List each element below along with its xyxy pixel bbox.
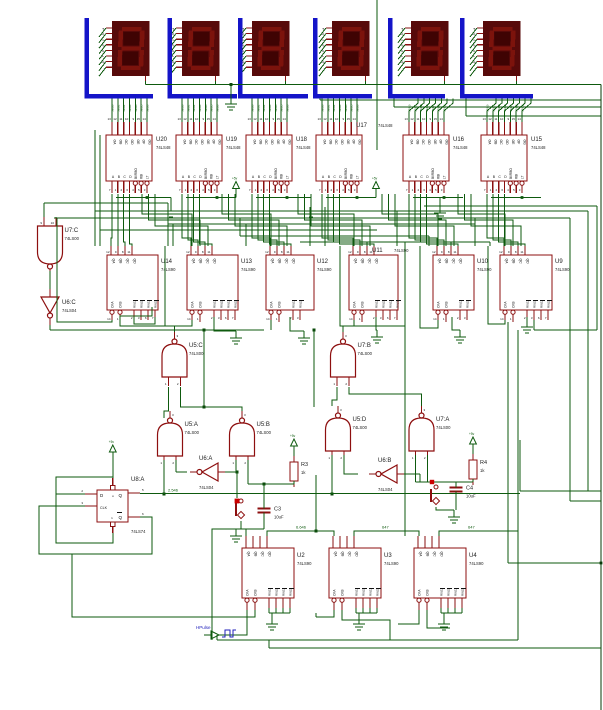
svg-text:c: c <box>400 38 404 41</box>
svg-text:f: f <box>472 55 476 57</box>
svg-text:R0(2): R0(2) <box>220 300 224 308</box>
svg-text:B: B <box>118 175 121 179</box>
svg-text:OB: OB <box>493 140 497 146</box>
wire rail below U17 <box>326 177 379 199</box>
svg-text:SEG6: SEG6 <box>215 104 219 112</box>
svg-text:74LS00: 74LS00 <box>65 236 80 241</box>
svg-text:12: 12 <box>183 117 187 121</box>
vcc arrow U8:A preset <box>109 440 116 478</box>
svg-text:OG: OG <box>444 140 448 146</box>
svg-text:4: 4 <box>111 495 115 497</box>
svg-text:BI/RBO: BI/RBO <box>344 168 348 179</box>
svg-text:U5:A: U5:A <box>185 422 198 428</box>
wire U3 CKB run <box>342 610 390 640</box>
svg-text:1k: 1k <box>301 470 306 475</box>
wire U13 R to gnd <box>214 317 236 331</box>
svg-text:OA: OA <box>323 140 327 146</box>
svg-text:D: D <box>100 493 104 498</box>
svg-text:SEG0: SEG0 <box>321 104 325 112</box>
svg-text:1: 1 <box>325 188 327 192</box>
svg-text:QB: QB <box>278 259 282 265</box>
svg-text:1: 1 <box>443 317 445 321</box>
svg-text:SEG5: SEG5 <box>437 104 441 112</box>
svg-text:QA: QA <box>505 259 509 265</box>
wire top bus 1 <box>320 99 601 101</box>
svg-text:10: 10 <box>125 117 129 121</box>
wire R3 bottom run <box>248 481 294 486</box>
svg-text:c: c <box>472 38 476 41</box>
svg-text:SEG6: SEG6 <box>442 104 446 112</box>
wire carry staircase col3-col4 <box>298 194 370 246</box>
capacitor C3 <box>258 507 284 520</box>
svg-text:74LS90: 74LS90 <box>469 561 484 566</box>
svg-text:SEG2: SEG2 <box>497 104 501 112</box>
wire U4 CKA down <box>398 610 419 624</box>
svg-text:SEG3: SEG3 <box>338 104 342 112</box>
svg-text:R0(1): R0(1) <box>459 300 463 308</box>
svg-text:R0(1): R0(1) <box>292 300 296 308</box>
svg-text:12: 12 <box>432 250 436 254</box>
svg-text:4: 4 <box>342 188 344 192</box>
svg-text:QC: QC <box>433 552 437 558</box>
wire U5:B in2 down <box>247 460 249 484</box>
svg-text:6: 6 <box>387 316 389 320</box>
svg-text:U11: U11 <box>372 248 383 254</box>
svg-text:CKB: CKB <box>199 301 203 308</box>
svg-text:R9(2): R9(2) <box>376 588 380 596</box>
svg-text:D: D <box>339 175 342 179</box>
svg-text:OC: OC <box>499 140 503 146</box>
svg-text:LT: LT <box>442 175 446 179</box>
svg-text:1: 1 <box>197 317 199 321</box>
svg-text:R0(2): R0(2) <box>140 300 144 308</box>
svg-text:QC: QC <box>261 552 265 558</box>
wire U7:C in1 <box>43 203 45 217</box>
svg-text:d: d <box>472 44 476 47</box>
svg-text:B: B <box>188 175 191 179</box>
svg-text:10uF: 10uF <box>274 515 284 520</box>
svg-text:U4: U4 <box>469 553 477 559</box>
decade counter U9 74LS90 <box>499 246 570 322</box>
svg-text:OB: OB <box>188 140 192 146</box>
svg-text:R9(1): R9(1) <box>540 300 544 308</box>
svg-text:1: 1 <box>115 188 117 192</box>
svg-text:U19: U19 <box>226 137 238 143</box>
svg-text:e: e <box>101 49 105 52</box>
BCD-7seg driver U17 74LS48 <box>316 99 393 194</box>
svg-text:10uF: 10uF <box>466 494 476 499</box>
svg-text:11: 11 <box>416 117 419 121</box>
svg-text:QB: QB <box>254 552 258 558</box>
svg-text:OG: OG <box>357 140 361 146</box>
wire U7:A in2 hour-set junction <box>416 455 474 484</box>
wire U6:C out run <box>50 325 264 330</box>
BCD-7seg driver U15 74LS48 <box>481 99 546 194</box>
decade counter U2 74LS90 <box>242 536 312 610</box>
svg-text:3: 3 <box>218 316 220 320</box>
svg-text:CKB: CKB <box>254 589 258 596</box>
wire rail below U19 <box>186 177 239 199</box>
7-segment display DS2 <box>167 18 237 96</box>
svg-text:d: d <box>321 44 325 47</box>
svg-text:U6:C: U6:C <box>62 300 76 306</box>
svg-text:+5v: +5v <box>372 177 378 181</box>
svg-text:QA: QA <box>419 552 423 558</box>
wire rail below U15 <box>491 196 541 199</box>
svg-text:74LS90: 74LS90 <box>241 267 256 272</box>
BCD-7seg driver U18 74LS48 <box>246 99 311 194</box>
7-segment display DS4 <box>313 18 372 96</box>
svg-text:3: 3 <box>354 188 356 192</box>
svg-text:OE: OE <box>511 140 515 146</box>
svg-text:5: 5 <box>348 188 350 192</box>
wire rail below U20 <box>116 196 177 217</box>
svg-text:SEG6: SEG6 <box>285 104 289 112</box>
svg-text:3: 3 <box>340 408 342 412</box>
wire R4 bottom <box>472 479 474 482</box>
svg-text:QB: QB <box>119 259 123 265</box>
svg-text:11: 11 <box>494 117 497 121</box>
svg-text:7: 7 <box>319 188 321 192</box>
switch hours set <box>431 485 440 505</box>
svg-text:SEG3: SEG3 <box>268 104 272 112</box>
svg-text:U6:A: U6:A <box>199 456 212 462</box>
svg-text:.: . <box>472 67 476 69</box>
wire carry staircase col4-col5 <box>382 194 454 246</box>
wire U5:B in1 junction to switch <box>236 460 237 498</box>
svg-text:13: 13 <box>247 117 251 121</box>
wire run F <box>100 229 377 231</box>
svg-text:SEG1: SEG1 <box>186 104 190 112</box>
svg-text:74LS00: 74LS00 <box>185 430 200 435</box>
decade counter U10 74LS90 <box>432 246 492 322</box>
svg-text:U7:A: U7:A <box>436 417 449 423</box>
wire BCD bus U18 to U12 <box>252 194 291 246</box>
svg-text:74LS48: 74LS48 <box>296 145 311 150</box>
wire reset vertical x204 <box>203 329 206 409</box>
svg-text:QB: QB <box>199 259 203 265</box>
svg-text:SEG6: SEG6 <box>355 104 359 112</box>
svg-text:RBI: RBI <box>515 174 519 179</box>
svg-text:CKB: CKB <box>278 301 282 308</box>
vcc arrow R3 <box>290 434 297 456</box>
svg-text:1: 1 <box>160 461 162 465</box>
svg-text:SEG4: SEG4 <box>134 104 138 112</box>
svg-text:9: 9 <box>429 117 431 121</box>
wire bundle col5 <box>397 211 429 246</box>
svg-text:QA: QA <box>438 259 442 265</box>
svg-text:2: 2 <box>260 188 262 192</box>
svg-text:SEG1: SEG1 <box>491 104 495 112</box>
svg-text:U10: U10 <box>477 259 489 265</box>
svg-text:3: 3 <box>284 188 286 192</box>
svg-text:9: 9 <box>508 250 510 254</box>
svg-text:8: 8 <box>448 250 450 254</box>
svg-text:CKA: CKA <box>333 589 337 596</box>
svg-text:11: 11 <box>127 250 130 254</box>
ground below U13 <box>230 331 242 344</box>
svg-text:f: f <box>101 55 105 57</box>
svg-text:R0(2): R0(2) <box>299 300 303 308</box>
svg-text:D: D <box>129 175 132 179</box>
svg-text:c: c <box>321 38 325 41</box>
svg-text:10: 10 <box>500 117 504 121</box>
wire C3 leads <box>263 484 265 529</box>
svg-text:C: C <box>333 175 336 179</box>
svg-text:QD: QD <box>355 552 359 558</box>
ground below U9 <box>521 320 533 333</box>
wire U13 CKA feed <box>165 246 192 326</box>
svg-text:3: 3 <box>519 188 521 192</box>
svg-text:3: 3 <box>214 188 216 192</box>
svg-text:8: 8 <box>122 250 124 254</box>
svg-text:6: 6 <box>336 188 338 192</box>
svg-text:f: f <box>400 55 404 57</box>
wire U7:C out to U6:C <box>49 271 51 289</box>
svg-text:RBI: RBI <box>210 174 214 179</box>
svg-text:Q: Q <box>118 493 122 498</box>
svg-text:OA: OA <box>113 140 117 146</box>
svg-text:11: 11 <box>286 250 289 254</box>
svg-text:SEG5: SEG5 <box>140 104 144 112</box>
svg-text:SEG1: SEG1 <box>413 104 417 112</box>
svg-text:+5v: +5v <box>469 432 475 436</box>
wire bundle left of U18 col <box>240 218 246 246</box>
wire U2 QD to U3 CKA <box>267 525 334 537</box>
svg-text:OB: OB <box>118 140 122 146</box>
svg-text:SEG2: SEG2 <box>419 104 423 112</box>
svg-text:CKB: CKB <box>445 301 449 308</box>
svg-text:b: b <box>321 33 325 36</box>
wire U5:D out to U7:B in1 <box>332 387 337 406</box>
wire U10 R to gnd <box>452 317 460 330</box>
svg-text:2: 2 <box>417 188 419 192</box>
svg-text:D: D <box>199 175 202 179</box>
svg-text:QB: QB <box>341 552 345 558</box>
svg-text:+5v: +5v <box>290 434 296 438</box>
svg-text:OA: OA <box>410 140 414 146</box>
svg-text:14: 14 <box>282 117 286 121</box>
svg-text:QC: QC <box>368 259 372 265</box>
svg-text:74LS48: 74LS48 <box>453 145 468 150</box>
svg-text:4: 4 <box>272 188 274 192</box>
svg-text:A: A <box>409 175 412 179</box>
wire U7:C in2 <box>55 217 57 218</box>
svg-text:A: A <box>112 175 115 179</box>
inverter U6:B <box>369 458 404 492</box>
svg-text:CKA: CKA <box>418 589 422 596</box>
svg-text:R9(1): R9(1) <box>147 300 151 308</box>
svg-text:74LS04: 74LS04 <box>378 487 393 492</box>
svg-text:3: 3 <box>144 188 146 192</box>
svg-text:BI/RBO: BI/RBO <box>431 168 435 179</box>
wire U5:B out to U5:C in2 <box>181 387 243 411</box>
svg-text:OC: OC <box>264 140 268 146</box>
svg-text:OD: OD <box>130 140 134 146</box>
svg-text:74LS74: 74LS74 <box>131 529 146 534</box>
wire U8:A Qbar feedback loop <box>39 506 152 554</box>
wire right vertical 2 <box>600 85 602 710</box>
wire U5:A out to U5:C in1 <box>164 387 169 418</box>
svg-text:LT: LT <box>285 175 289 179</box>
svg-text:g: g <box>101 61 105 64</box>
svg-text:2: 2 <box>457 316 459 320</box>
svg-text:C: C <box>193 175 196 179</box>
svg-text:12: 12 <box>410 117 414 121</box>
svg-text:R0(1): R0(1) <box>375 300 379 308</box>
svg-text:14: 14 <box>500 317 504 321</box>
svg-text:3: 3 <box>424 408 426 412</box>
wire U7:B out run + long vertical <box>343 242 405 518</box>
svg-text:1: 1 <box>185 188 187 192</box>
svg-text:D: D <box>504 175 507 179</box>
svg-text:OC: OC <box>124 140 128 146</box>
vcc arrow R4 <box>469 432 476 454</box>
svg-text:3: 3 <box>464 316 466 320</box>
svg-text:8: 8 <box>202 250 204 254</box>
wire U5:D in1 to Q bus <box>331 455 334 496</box>
svg-text:Q: Q <box>118 515 122 520</box>
svg-text:b: b <box>101 33 105 36</box>
svg-text:U2: U2 <box>297 553 305 559</box>
svg-text:74LS04: 74LS04 <box>199 485 214 490</box>
svg-text:1: 1 <box>490 188 492 192</box>
svg-text:OB: OB <box>258 140 262 146</box>
svg-text:R9(1): R9(1) <box>389 300 393 308</box>
svg-text:7: 7 <box>152 316 154 320</box>
svg-text:6: 6 <box>225 316 227 320</box>
svg-text:SEG0: SEG0 <box>408 104 412 112</box>
svg-text:74LS48: 74LS48 <box>156 145 171 150</box>
svg-text:8: 8 <box>364 250 366 254</box>
svg-text:QC: QC <box>519 259 523 265</box>
wire bundle left of U14 <box>168 203 173 246</box>
svg-text:9: 9 <box>272 117 274 121</box>
svg-text:6: 6 <box>145 316 147 320</box>
wire switch min to ground <box>230 521 264 542</box>
svg-text:U7:B: U7:B <box>358 343 371 349</box>
svg-text:4: 4 <box>202 188 204 192</box>
wire carry staircase col5-col6 <box>458 194 521 246</box>
svg-text:1: 1 <box>510 317 512 321</box>
svg-text:2: 2 <box>340 456 342 460</box>
wire U11 R to gnd <box>376 317 377 330</box>
svg-text:15: 15 <box>512 117 516 121</box>
svg-text:CKA: CKA <box>504 301 508 308</box>
svg-text:C: C <box>263 175 266 179</box>
svg-text:BI/RBO: BI/RBO <box>134 168 138 179</box>
wire BCD bus U16 to U10 <box>409 194 458 246</box>
svg-text:OD: OD <box>200 140 204 146</box>
wire run A <box>44 202 168 204</box>
wire BCD bus U17 to U11 <box>322 194 374 246</box>
svg-text:SEG3: SEG3 <box>503 104 507 112</box>
svg-text:LT: LT <box>215 175 219 179</box>
svg-text:13: 13 <box>317 117 321 121</box>
svg-text:R4: R4 <box>480 460 487 466</box>
svg-text:74LS90: 74LS90 <box>297 561 312 566</box>
wire U3 CKA down <box>316 610 334 617</box>
svg-text:QC: QC <box>285 259 289 265</box>
svg-text:6: 6 <box>538 316 540 320</box>
svg-text:SEG5: SEG5 <box>350 104 354 112</box>
NAND gate U5:D <box>326 406 368 460</box>
svg-text:6: 6 <box>142 512 144 516</box>
svg-text:3: 3 <box>244 413 246 417</box>
svg-text:SEG0: SEG0 <box>111 104 115 112</box>
wire run D <box>95 210 588 212</box>
svg-text:.: . <box>101 67 105 69</box>
svg-text:QC: QC <box>452 259 456 265</box>
svg-text:A: A <box>252 175 255 179</box>
svg-text:10: 10 <box>422 117 426 121</box>
svg-text:RBI: RBI <box>437 174 441 179</box>
svg-text:RBI: RBI <box>140 174 144 179</box>
svg-text:SEG0: SEG0 <box>486 104 490 112</box>
svg-text:R0(1): R0(1) <box>526 300 530 308</box>
svg-text:10: 10 <box>265 117 269 121</box>
wire U5:A in1 to Q bus <box>163 460 166 496</box>
wire U11 CKA feed <box>340 246 354 326</box>
svg-text:U6:B: U6:B <box>378 458 391 464</box>
svg-text:OG: OG <box>522 140 526 146</box>
svg-text:CKA: CKA <box>246 589 250 596</box>
svg-text:HPulse: HPulse <box>196 625 211 630</box>
svg-text:QD: QD <box>133 259 137 265</box>
svg-text:2: 2 <box>131 316 133 320</box>
svg-text:9: 9 <box>357 250 359 254</box>
svg-text:R0(2): R0(2) <box>447 588 451 596</box>
resistor R3 <box>290 456 308 487</box>
svg-text:SEG6: SEG6 <box>520 104 524 112</box>
svg-text:RBI: RBI <box>350 174 354 179</box>
svg-text:C: C <box>420 175 423 179</box>
svg-text:A: A <box>182 175 185 179</box>
svg-text:B: B <box>415 175 418 179</box>
wire switch hr to ground <box>436 507 460 523</box>
svg-text:15: 15 <box>277 117 281 121</box>
7-segment display DS5 <box>388 18 449 96</box>
svg-text:D: D <box>426 175 429 179</box>
svg-text:U13: U13 <box>241 259 253 265</box>
wire U9 CKA feed <box>488 246 505 324</box>
resistor R4 <box>469 454 487 485</box>
wire U2 QA loop <box>212 529 246 640</box>
svg-text:R9(2): R9(2) <box>396 300 400 308</box>
svg-text:12: 12 <box>499 250 503 254</box>
svg-text:2: 2 <box>172 461 174 465</box>
decade counter U11 74LS90 <box>348 246 409 322</box>
svg-text:12: 12 <box>323 117 327 121</box>
svg-text:OE: OE <box>136 140 140 146</box>
svg-text:+5v: +5v <box>232 177 238 181</box>
svg-text:R9(2): R9(2) <box>154 300 158 308</box>
svg-text:CLK: CLK <box>100 506 108 510</box>
wire run G <box>240 235 429 237</box>
BCD-7seg driver U20 74LS48 <box>106 99 171 194</box>
svg-text:9: 9 <box>342 117 344 121</box>
svg-text:g: g <box>321 61 325 64</box>
D flip-flop U8:A 74LS74 <box>81 477 146 534</box>
svg-text:QD: QD <box>268 552 272 558</box>
svg-text:R9(1): R9(1) <box>227 300 231 308</box>
svg-text:5: 5 <box>138 188 140 192</box>
svg-text:9: 9 <box>40 221 42 225</box>
svg-text:b: b <box>472 33 476 36</box>
decade counter U14 74LS90 <box>106 246 176 322</box>
svg-text:OD: OD <box>340 140 344 146</box>
wire right vertical 4 <box>569 218 571 501</box>
